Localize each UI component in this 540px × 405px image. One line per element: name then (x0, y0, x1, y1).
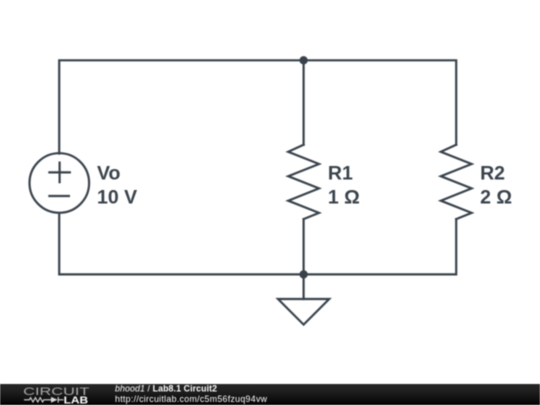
svg-text:LAB: LAB (64, 395, 89, 405)
wire: Vo bottom lead to bottom-left corner to node B (59, 213, 303, 274)
svg-text:2 Ω: 2 Ω (480, 186, 512, 208)
wire: node A to top-right corner to R2 top lead (304, 60, 457, 144)
label Vo (97, 163, 121, 185)
ground stem wire (303, 274, 305, 299)
node A junction dot (299, 56, 307, 64)
resistor R2 (441, 145, 472, 219)
CircuitLab logo wordmark CIRCUIT (23, 386, 89, 398)
wire: R1 bottom lead (303, 219, 305, 274)
label R2 (480, 163, 505, 185)
node B junction dot (299, 270, 307, 278)
CircuitLab logo resistor-diode wire (24, 397, 63, 403)
svg-text:10 V: 10 V (97, 186, 137, 208)
value 10 V (97, 186, 137, 208)
svg-text:bhood1 / Lab8.1 Circuit2: bhood1 / Lab8.1 Circuit2 (115, 384, 217, 394)
svg-text:R2: R2 (480, 163, 505, 185)
footer title: bhood1 / Lab8.1 Circuit2 (115, 384, 217, 394)
CircuitLab logo LAB (64, 395, 89, 405)
svg-text:Vo: Vo (97, 163, 121, 185)
wire: R2 bottom lead to bottom-right corner to node B (304, 219, 457, 274)
label R1 (328, 163, 353, 185)
wire: R1 top lead (303, 60, 305, 144)
ground symbol (278, 299, 329, 325)
wire: Vo top lead to top-left corner to node A (59, 60, 303, 153)
footer url (115, 394, 268, 404)
value 2 Ω (480, 186, 512, 208)
svg-text:http://circuitlab.com/c5m56fzu: http://circuitlab.com/c5m56fzuq94vw (115, 394, 268, 404)
svg-text:R1: R1 (328, 163, 353, 185)
resistor R1 (288, 145, 319, 219)
voltage source Vo (30, 153, 90, 213)
footer bar (0, 384, 540, 405)
svg-text:1 Ω: 1 Ω (328, 186, 360, 208)
value 1 Ω (328, 186, 360, 208)
